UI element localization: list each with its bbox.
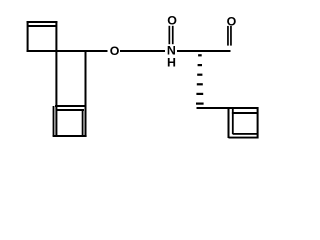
double bond C=O carbamate line 2 (172, 26, 174, 44)
wire long vertical V1 (shared right edge of top ring, runs to bottom ring) (55, 21, 57, 136)
bond O-N (ester O to nitrogen) (120, 50, 165, 52)
hashed stereo wedge dash 1 (198, 54, 202, 56)
svg-text:H: H (167, 56, 176, 70)
double bond C=O aldehyde line 1 (227, 26, 229, 46)
ring bottom-right: right edge (257, 107, 259, 139)
hashed stereo wedge dash 4 (197, 83, 203, 85)
bond CH2 chain to bottom-right ring (197, 107, 233, 109)
ring bottom-right: inner top edge (232, 112, 258, 114)
double bond C=O aldehyde line 2 (230, 26, 232, 46)
svg-text:O: O (167, 14, 177, 28)
ring bottom-left: bottom edge (53, 135, 87, 137)
ring bottom-right: outer bottom edge (229, 137, 259, 139)
double bond C=O carbamate line 1 (169, 26, 171, 44)
hashed stereo wedge dash 2 (198, 64, 202, 66)
bond N-C (nitrogen to stereocenter and on to aldehyde C) (177, 50, 231, 52)
hashed stereo wedge dash 5 (196, 93, 203, 95)
ring cyclobutene top-left: top edge (27, 21, 58, 23)
bond C-O chain segment left (square corner to ester O) (27, 50, 108, 52)
ring bottom-right: outer left edge (228, 107, 230, 138)
hashed stereo wedge dash 6 (196, 103, 204, 105)
hashed stereo wedge dash 3 (197, 74, 202, 76)
ring bottom-left: outer top edge (55, 105, 87, 107)
ring bottom-right: inner bottom edge (233, 133, 258, 135)
ring bottom-left: outer left edge (53, 106, 55, 136)
ring bottom-right: outer top edge (228, 107, 259, 109)
wire long vertical V2 (right side of tall ring) (85, 50, 87, 136)
ring cyclobutene top-left: double bond inner line (27, 25, 57, 27)
ring bottom-left: inner right edge (82, 110, 84, 136)
ring bottom-left: inner top edge (double bond) (57, 109, 85, 111)
svg-text:O: O (110, 44, 120, 58)
ring cyclobutene top-left: left edge (27, 21, 29, 52)
ring bottom-right: inner left edge (232, 108, 234, 134)
